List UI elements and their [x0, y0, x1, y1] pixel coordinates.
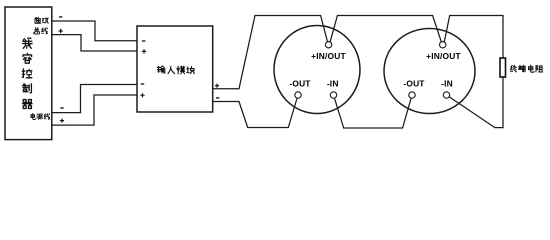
svg-text:+IN/OUT: +IN/OUT	[311, 51, 346, 61]
svg-text:-OUT: -OUT	[289, 79, 311, 89]
svg-text:-OUT: -OUT	[403, 79, 425, 89]
svg-text:-IN: -IN	[327, 79, 339, 89]
svg-text:-IN: -IN	[441, 79, 453, 89]
svg-text:+IN/OUT: +IN/OUT	[426, 51, 461, 61]
